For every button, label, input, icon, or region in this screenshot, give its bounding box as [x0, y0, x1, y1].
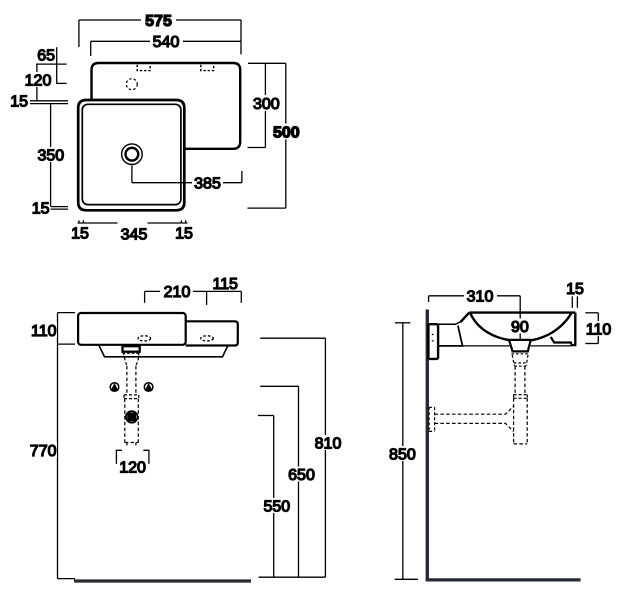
drain hole outer: [122, 144, 143, 165]
dimension 15 top-left: [10, 93, 68, 110]
side pipe dashed: [514, 366, 516, 394]
svg-text:345: 345: [121, 227, 148, 244]
trap outlet black: [126, 411, 138, 423]
bowl inner curve right: [531, 313, 572, 340]
underside thin right: [531, 345, 572, 347]
svg-text:110: 110: [586, 321, 612, 338]
shelf outline: [92, 63, 241, 149]
svg-text:385: 385: [194, 176, 221, 193]
svg-text:550: 550: [263, 498, 290, 515]
floor line front: [74, 579, 251, 582]
mounting hole right: [144, 383, 153, 392]
extension line top right: [248, 62, 286, 64]
svg-text:15: 15: [10, 93, 28, 110]
dimension 120 left: [25, 64, 52, 101]
front underside: [99, 346, 228, 357]
dimension 210: [145, 284, 207, 306]
drain funnel side: [509, 340, 530, 351]
dimension row 15 345 15: [71, 220, 193, 243]
svg-text:210: 210: [164, 284, 191, 301]
dimension 385 leader: [132, 166, 242, 193]
rim left slope: [461, 313, 470, 322]
underside thin left: [456, 345, 510, 347]
svg-text:90: 90: [511, 319, 529, 336]
rim top: [469, 311, 575, 313]
svg-text:15: 15: [566, 281, 584, 298]
svg-text:650: 650: [288, 467, 315, 484]
dimension 350: [37, 104, 64, 207]
svg-text:110: 110: [31, 323, 57, 340]
basin outer square: [78, 100, 184, 210]
wall: [426, 310, 429, 581]
dimension 110 side: [585, 313, 612, 344]
dimension 310: [429, 288, 521, 340]
drain pipe dashed: [126, 366, 128, 395]
drain taper dashed: [123, 353, 127, 367]
dimension 90: [508, 319, 532, 336]
dimension 850: [388, 323, 418, 580]
dimension 500: [248, 63, 303, 208]
svg-text:120: 120: [25, 72, 52, 89]
dimension 15 bottom-left: [32, 201, 68, 218]
bowl inner curve left: [470, 313, 509, 340]
svg-text:810: 810: [315, 435, 342, 452]
svg-text:15: 15: [71, 226, 89, 243]
left dimension line 110/770: [30, 313, 75, 579]
dimension 810: [260, 338, 343, 577]
svg-text:770: 770: [30, 443, 57, 460]
svg-text:310: 310: [467, 288, 494, 305]
dimension 65: [36, 47, 67, 83]
flange dashed line: [123, 352, 141, 354]
mounting hole left: [110, 383, 119, 392]
dimension 15 side: [566, 281, 584, 308]
svg-text:65: 65: [37, 48, 55, 65]
trap tail dashed: [126, 443, 128, 447]
basin inner square: [82, 104, 181, 204]
right wall hook: [551, 337, 576, 345]
svg-text:350: 350: [37, 148, 64, 165]
svg-text:500: 500: [273, 125, 300, 142]
dimension 575: [79, 12, 241, 54]
trap coupling dashed: [124, 395, 139, 399]
svg-text:115: 115: [212, 276, 238, 293]
dimension 300: [248, 63, 283, 147]
dimension 550: [258, 416, 293, 578]
svg-text:540: 540: [153, 34, 180, 51]
drain flange front: [123, 346, 140, 352]
tap knockout right dashed: [201, 65, 214, 71]
bracket 120: [116, 450, 148, 476]
svg-text:15: 15: [175, 226, 193, 243]
front right shelf: [186, 321, 238, 345]
dimension 650: [260, 386, 317, 577]
front main body: [78, 313, 186, 345]
svg-text:575: 575: [145, 13, 172, 30]
section lower quad: [438, 326, 463, 346]
shared bottom tick: [259, 576, 326, 578]
svg-text:15: 15: [32, 201, 50, 218]
dimension 115: [207, 276, 242, 303]
side horizontal pipe dashed: [435, 406, 514, 414]
svg-text:300: 300: [253, 96, 280, 113]
dimension 540: [91, 34, 241, 57]
tap knockout left dashed: [137, 65, 150, 71]
side drain flange dashed: [511, 353, 529, 355]
tap dashed ellipse left: [138, 336, 151, 341]
wall bracket: [428, 324, 438, 359]
svg-text:120: 120: [119, 460, 146, 477]
trap body dashed: [125, 399, 139, 443]
section top line from bracket: [438, 321, 461, 324]
right edge: [574, 313, 576, 344]
wall flange dashed: [429, 407, 435, 431]
tap dashed ellipse right: [201, 336, 214, 341]
side coupling dashed: [514, 395, 528, 399]
tap hole dashed circle: [126, 79, 137, 90]
drain hole inner: [125, 148, 138, 161]
svg-text:850: 850: [389, 446, 416, 463]
side trap body dashed: [514, 398, 528, 444]
floor side: [426, 578, 581, 581]
bracket marks: [432, 335, 434, 341]
